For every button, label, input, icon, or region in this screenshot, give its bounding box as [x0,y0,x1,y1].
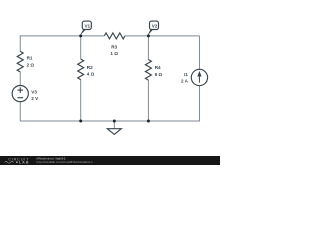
svg-text:R2: R2 [87,65,93,70]
svg-text:LAB: LAB [19,161,30,165]
svg-text:V3: V3 [31,90,37,95]
svg-text:2 A: 2 A [181,78,189,83]
svg-text:6 Ω: 6 Ω [155,72,163,77]
svg-text:2 V: 2 V [31,96,39,101]
svg-text:R3: R3 [111,44,117,49]
svg-text:V2: V2 [152,24,158,29]
svg-text:R4: R4 [155,65,161,70]
svg-text:http://circuitlab.com/circuit/: http://circuitlab.com/circuit/87kcnb4v/l… [37,160,94,164]
svg-text:4 Ω: 4 Ω [87,72,95,77]
svg-text:2 Ω: 2 Ω [27,62,35,67]
svg-text:1 Ω: 1 Ω [110,51,118,56]
svg-text:V1: V1 [84,24,90,29]
svg-text:R1: R1 [27,56,33,61]
svg-text:I1: I1 [184,72,188,77]
